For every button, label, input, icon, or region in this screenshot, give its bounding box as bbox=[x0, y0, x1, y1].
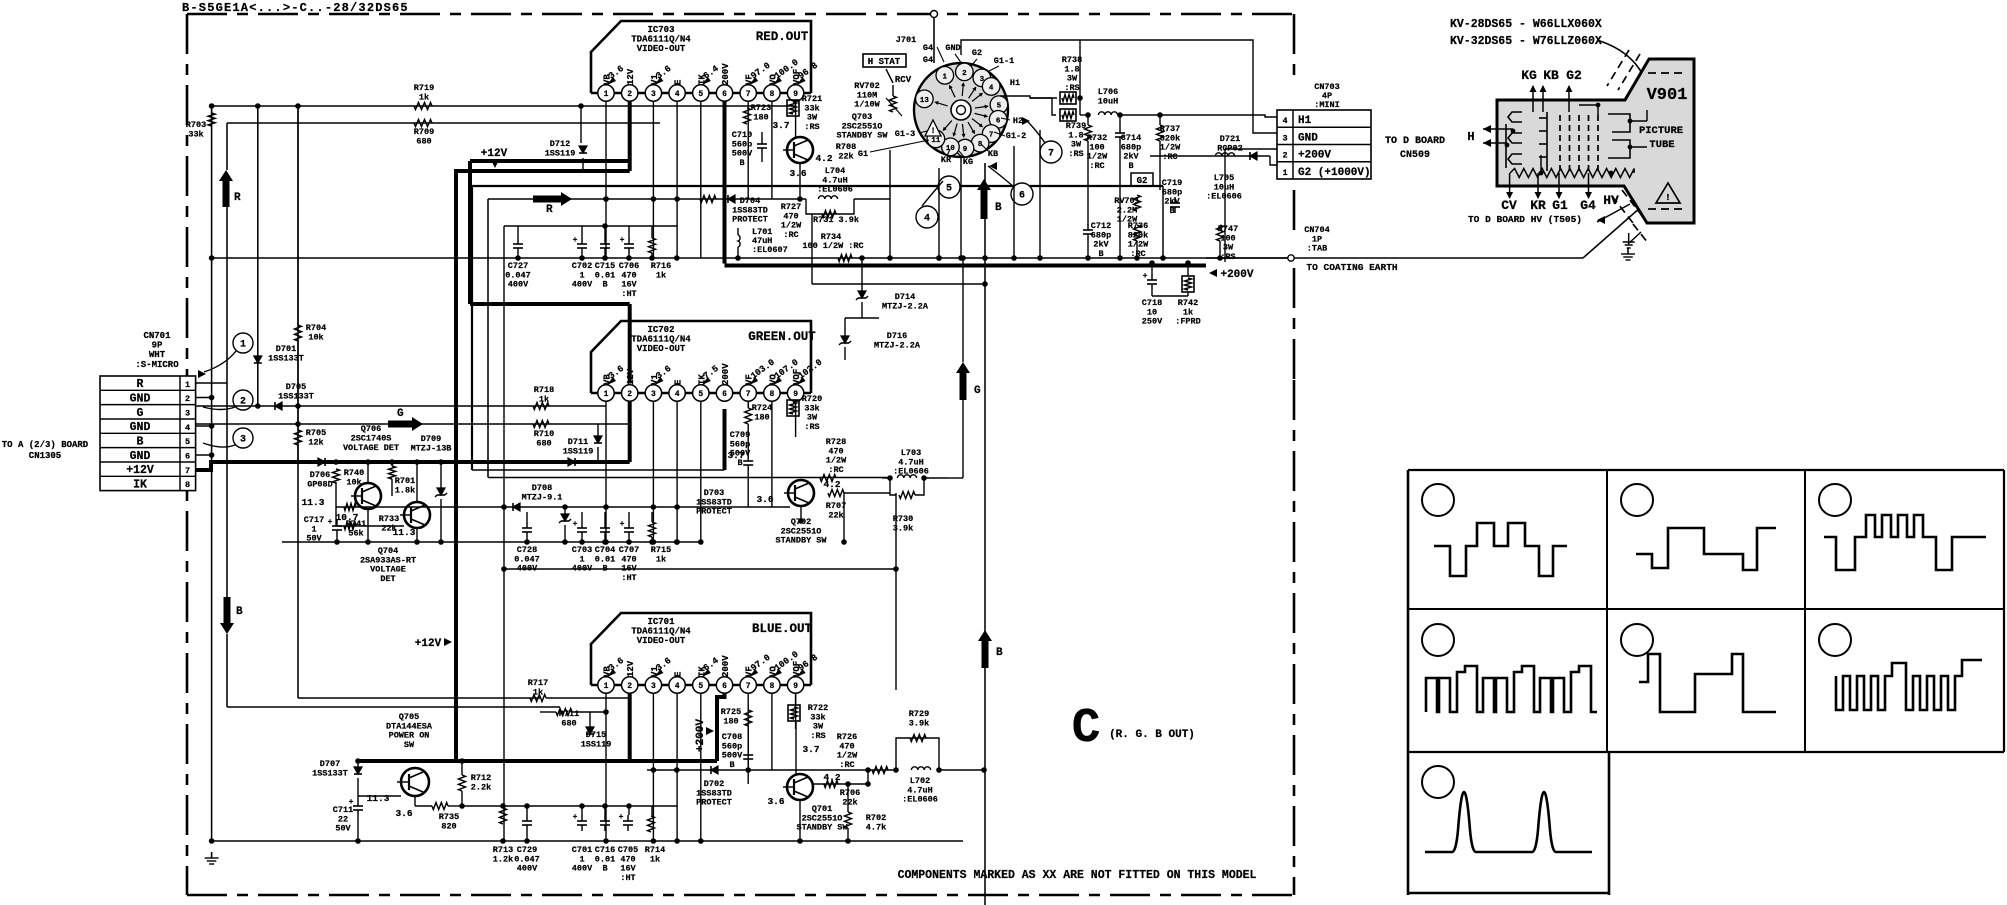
svg-text:MTZJ-9.1: MTZJ-9.1 bbox=[522, 492, 563, 502]
svg-text:PROTECT: PROTECT bbox=[696, 798, 732, 808]
svg-text::TAB: :TAB bbox=[1307, 244, 1327, 254]
svg-text:G1-2: G1-2 bbox=[1006, 131, 1026, 141]
svg-text:G2 (+1000V): G2 (+1000V) bbox=[1298, 167, 1371, 179]
svg-text:1.8k: 1.8k bbox=[395, 485, 415, 495]
svg-text:V901: V901 bbox=[1647, 86, 1688, 105]
svg-text:TDA6111Q/N4: TDA6111Q/N4 bbox=[631, 335, 691, 345]
svg-text:IK: IK bbox=[133, 479, 147, 492]
svg-text::RS: :RS bbox=[804, 422, 819, 432]
svg-text:3.6: 3.6 bbox=[767, 796, 784, 807]
svg-text:1SS133T: 1SS133T bbox=[278, 391, 314, 401]
svg-text:KB: KB bbox=[1543, 68, 1559, 83]
svg-text:DET: DET bbox=[380, 574, 395, 584]
svg-text:1k: 1k bbox=[650, 854, 660, 864]
svg-text:180: 180 bbox=[754, 412, 769, 422]
svg-text:400V: 400V bbox=[572, 280, 593, 290]
svg-text::S-MICRO: :S-MICRO bbox=[135, 360, 179, 370]
svg-text:G4: G4 bbox=[923, 43, 933, 53]
svg-text::RS: :RS bbox=[804, 122, 819, 132]
svg-text:6: 6 bbox=[996, 117, 1001, 125]
svg-text:CV: CV bbox=[1501, 198, 1517, 213]
svg-text:1SS119: 1SS119 bbox=[581, 739, 612, 749]
svg-text:3: 3 bbox=[651, 682, 656, 691]
svg-text:RGP02: RGP02 bbox=[1217, 143, 1243, 153]
svg-text:10k: 10k bbox=[308, 332, 323, 342]
svg-text:6: 6 bbox=[185, 451, 190, 461]
svg-text:3.7: 3.7 bbox=[772, 120, 789, 131]
svg-text:5: 5 bbox=[698, 90, 703, 99]
svg-text:+: + bbox=[620, 520, 625, 529]
svg-text:9: 9 bbox=[793, 390, 798, 399]
svg-text:GND: GND bbox=[945, 43, 960, 53]
svg-text:22k: 22k bbox=[381, 523, 396, 533]
svg-text:B: B bbox=[996, 647, 1003, 659]
svg-text::EL0607: :EL0607 bbox=[752, 245, 788, 255]
svg-text:COMPONENTS MARKED AS XX ARE NO: COMPONENTS MARKED AS XX ARE NOT FITTED O… bbox=[898, 869, 1257, 882]
svg-text:GP08D: GP08D bbox=[307, 479, 333, 489]
svg-text:+: + bbox=[573, 236, 578, 245]
svg-text:9: 9 bbox=[793, 90, 798, 99]
svg-text:22k: 22k bbox=[842, 797, 857, 807]
svg-text:1k: 1k bbox=[656, 270, 666, 280]
svg-text:6: 6 bbox=[1019, 191, 1025, 202]
svg-text:+: + bbox=[328, 518, 333, 527]
svg-text:B: B bbox=[236, 606, 243, 618]
svg-text:7: 7 bbox=[185, 466, 190, 476]
svg-text:G1: G1 bbox=[1552, 198, 1568, 213]
svg-text:+12V: +12V bbox=[126, 464, 154, 477]
svg-text:TDA6111Q/N4: TDA6111Q/N4 bbox=[631, 35, 691, 45]
svg-text:200V: 200V bbox=[721, 655, 731, 677]
svg-text:H1: H1 bbox=[1298, 115, 1312, 127]
svg-text:9: 9 bbox=[963, 146, 968, 154]
svg-text:5: 5 bbox=[185, 437, 190, 447]
svg-text:5: 5 bbox=[946, 184, 952, 195]
svg-text:22k: 22k bbox=[828, 510, 843, 520]
svg-text::FPRD: :FPRD bbox=[1175, 317, 1201, 327]
svg-text::EL0606: :EL0606 bbox=[817, 185, 853, 195]
svg-text:H2: H2 bbox=[1013, 116, 1023, 126]
svg-text:B: B bbox=[737, 458, 742, 468]
svg-text:IC703: IC703 bbox=[647, 25, 674, 35]
svg-text:B: B bbox=[739, 158, 744, 168]
svg-text:11.3: 11.3 bbox=[302, 497, 325, 508]
svg-text:TO D BOARD HV (T505): TO D BOARD HV (T505) bbox=[1468, 214, 1582, 225]
svg-text:12V: 12V bbox=[626, 660, 636, 677]
svg-text:250V: 250V bbox=[1142, 317, 1163, 327]
svg-text::MINI: :MINI bbox=[1314, 100, 1340, 110]
svg-text:4.2: 4.2 bbox=[815, 153, 832, 164]
svg-text:VIDEO-OUT: VIDEO-OUT bbox=[637, 636, 686, 646]
svg-text:33k: 33k bbox=[188, 129, 203, 139]
svg-text:B: B bbox=[995, 202, 1002, 214]
svg-text:200V: 200V bbox=[721, 363, 731, 385]
svg-text:HV: HV bbox=[1603, 193, 1619, 208]
svg-text:+: + bbox=[573, 813, 578, 822]
svg-text:50V: 50V bbox=[306, 534, 322, 544]
svg-text:CN1305: CN1305 bbox=[29, 451, 61, 461]
svg-text:6: 6 bbox=[722, 390, 727, 399]
svg-text:GND: GND bbox=[130, 421, 151, 434]
svg-text:H STAT: H STAT bbox=[868, 57, 901, 67]
svg-text:+: + bbox=[573, 520, 578, 529]
svg-text:1k: 1k bbox=[539, 394, 549, 404]
svg-text:4: 4 bbox=[989, 84, 994, 92]
svg-text:1: 1 bbox=[185, 380, 190, 390]
svg-text:11.3: 11.3 bbox=[367, 793, 390, 804]
svg-text:PROTECT: PROTECT bbox=[696, 507, 732, 517]
svg-text:G1-3: G1-3 bbox=[895, 129, 915, 139]
svg-text:1/10W: 1/10W bbox=[854, 100, 880, 110]
svg-text:GND: GND bbox=[130, 450, 151, 463]
svg-text:1k: 1k bbox=[656, 554, 666, 564]
svg-text:G2: G2 bbox=[972, 48, 982, 58]
svg-text:400V: 400V bbox=[572, 864, 593, 874]
svg-text:WHT: WHT bbox=[149, 350, 166, 360]
svg-text:7: 7 bbox=[1048, 149, 1054, 160]
svg-text:+200V: +200V bbox=[695, 719, 707, 752]
svg-text:R: R bbox=[234, 192, 241, 204]
svg-text:KG: KG bbox=[1521, 68, 1537, 83]
svg-text:1k: 1k bbox=[419, 92, 429, 102]
svg-text:+: + bbox=[620, 236, 625, 245]
svg-text:8: 8 bbox=[769, 390, 774, 399]
svg-text:56k: 56k bbox=[348, 528, 363, 538]
svg-text::RS: :RS bbox=[1220, 252, 1235, 262]
svg-text:TO A (2/3) BOARD: TO A (2/3) BOARD bbox=[2, 440, 89, 450]
svg-text:+12V: +12V bbox=[481, 148, 508, 160]
svg-text:680: 680 bbox=[536, 438, 551, 448]
svg-text:(R. G. B OUT): (R. G. B OUT) bbox=[1109, 729, 1195, 741]
svg-text:12V: 12V bbox=[626, 68, 636, 85]
svg-text:B: B bbox=[602, 280, 607, 290]
svg-text:2: 2 bbox=[185, 394, 190, 404]
svg-text:PICTURE: PICTURE bbox=[1639, 125, 1683, 137]
svg-text:PROTECT: PROTECT bbox=[732, 215, 768, 225]
svg-text:B: B bbox=[137, 436, 144, 449]
svg-text:TUBE: TUBE bbox=[1649, 139, 1674, 151]
svg-text:2.2k: 2.2k bbox=[471, 782, 491, 792]
svg-text:G4: G4 bbox=[1580, 198, 1596, 213]
svg-text:VOLTAGE DET: VOLTAGE DET bbox=[343, 443, 399, 453]
svg-text:!: ! bbox=[931, 127, 936, 136]
svg-text:1: 1 bbox=[943, 73, 948, 81]
svg-text:8: 8 bbox=[769, 682, 774, 691]
svg-text:3: 3 bbox=[651, 90, 656, 99]
svg-text:6: 6 bbox=[722, 90, 727, 99]
svg-text:KV-28DS65 - W66LLX060X: KV-28DS65 - W66LLX060X bbox=[1450, 18, 1602, 31]
svg-text:7: 7 bbox=[989, 132, 994, 140]
svg-text:KV-32DS65 - W76LLZ060X: KV-32DS65 - W76LLZ060X bbox=[1450, 35, 1602, 48]
svg-text:GREEN.OUT: GREEN.OUT bbox=[748, 330, 816, 344]
svg-text:2SC1740S: 2SC1740S bbox=[351, 433, 392, 443]
svg-text:H: H bbox=[1467, 130, 1474, 144]
svg-text:2: 2 bbox=[962, 70, 967, 78]
svg-text:J701: J701 bbox=[896, 35, 916, 45]
svg-text:G: G bbox=[137, 407, 144, 420]
svg-text:R731 3.9k: R731 3.9k bbox=[813, 215, 859, 225]
svg-text:B: B bbox=[1098, 249, 1103, 259]
svg-text:G4: G4 bbox=[923, 55, 933, 65]
svg-text:680: 680 bbox=[416, 136, 431, 146]
svg-text:KB: KB bbox=[988, 149, 998, 159]
svg-text:KR: KR bbox=[941, 155, 952, 165]
svg-text:7: 7 bbox=[746, 682, 751, 691]
svg-text:RED.OUT: RED.OUT bbox=[756, 30, 809, 44]
svg-text:!: ! bbox=[1665, 193, 1670, 203]
svg-text:820: 820 bbox=[441, 821, 456, 831]
svg-text:TO COATING EARTH: TO COATING EARTH bbox=[1306, 262, 1398, 273]
svg-text:E: E bbox=[674, 79, 684, 85]
svg-text:VIDEO-OUT: VIDEO-OUT bbox=[637, 44, 686, 54]
svg-text:TDA6111Q/N4: TDA6111Q/N4 bbox=[631, 627, 691, 637]
svg-text::RS: :RS bbox=[1068, 149, 1083, 159]
svg-text:100 1/2W :RC: 100 1/2W :RC bbox=[802, 241, 863, 251]
svg-text:1SS133T: 1SS133T bbox=[268, 353, 304, 363]
svg-text:SW: SW bbox=[404, 740, 415, 750]
svg-text:680: 680 bbox=[561, 718, 576, 728]
svg-text::RC: :RC bbox=[828, 465, 843, 475]
svg-text:B-S5GE1A<...>-C..-28/32DS65: B-S5GE1A<...>-C..-28/32DS65 bbox=[182, 1, 409, 15]
svg-text:CN509: CN509 bbox=[1400, 150, 1430, 161]
svg-text:+: + bbox=[1143, 272, 1148, 281]
svg-text::EL0606: :EL0606 bbox=[902, 795, 938, 805]
svg-text:13: 13 bbox=[920, 97, 930, 105]
svg-text:11: 11 bbox=[931, 137, 941, 145]
svg-text:G: G bbox=[397, 408, 404, 420]
svg-text::HT: :HT bbox=[621, 289, 636, 299]
svg-text:400V: 400V bbox=[517, 864, 538, 874]
svg-text:KG: KG bbox=[963, 157, 973, 167]
svg-text:3.6: 3.6 bbox=[395, 808, 412, 819]
svg-text:400V: 400V bbox=[508, 280, 529, 290]
svg-text:+12V: +12V bbox=[415, 638, 442, 650]
svg-text::EL0606: :EL0606 bbox=[893, 467, 929, 477]
svg-text::RS: :RS bbox=[810, 731, 825, 741]
svg-text:10uH: 10uH bbox=[1098, 96, 1118, 106]
svg-text:MTZJ-2.2A: MTZJ-2.2A bbox=[882, 301, 929, 311]
svg-text:MTZJ-2.2A: MTZJ-2.2A bbox=[874, 340, 921, 350]
svg-text:KR: KR bbox=[1530, 198, 1546, 213]
svg-text:2: 2 bbox=[1282, 151, 1287, 161]
svg-text:STANDBY SW: STANDBY SW bbox=[796, 823, 848, 833]
svg-text:4: 4 bbox=[1282, 116, 1287, 126]
svg-text:G2: G2 bbox=[1137, 176, 1148, 186]
svg-text:200V: 200V bbox=[721, 63, 731, 85]
svg-text:2: 2 bbox=[627, 90, 632, 99]
svg-text:E: E bbox=[674, 671, 684, 677]
svg-text:3: 3 bbox=[240, 435, 246, 446]
svg-text:1k: 1k bbox=[533, 687, 543, 697]
svg-text:2: 2 bbox=[627, 390, 632, 399]
svg-text:4.7k: 4.7k bbox=[866, 822, 886, 832]
svg-text::HT: :HT bbox=[620, 873, 635, 883]
svg-text:1SS119: 1SS119 bbox=[563, 446, 594, 456]
svg-text:+: + bbox=[619, 813, 624, 822]
svg-text:2: 2 bbox=[627, 682, 632, 691]
svg-text:1: 1 bbox=[240, 340, 246, 351]
svg-text:12k: 12k bbox=[308, 437, 323, 447]
svg-text:C: C bbox=[1072, 702, 1101, 756]
svg-text:3: 3 bbox=[1282, 133, 1287, 143]
svg-text:9P: 9P bbox=[152, 341, 163, 351]
svg-text:4: 4 bbox=[675, 90, 680, 99]
svg-text:H1: H1 bbox=[1010, 78, 1020, 88]
svg-text:B: B bbox=[1128, 161, 1133, 171]
svg-text::RS: :RS bbox=[1064, 83, 1079, 93]
svg-text:5: 5 bbox=[698, 682, 703, 691]
svg-text::EL0606: :EL0606 bbox=[1206, 192, 1242, 202]
svg-text::RC: :RC bbox=[783, 230, 798, 240]
svg-text:VIDEO-OUT: VIDEO-OUT bbox=[637, 344, 686, 354]
svg-text:3.6: 3.6 bbox=[756, 494, 773, 505]
svg-text:GND: GND bbox=[1298, 132, 1318, 144]
svg-text:1: 1 bbox=[604, 90, 609, 99]
svg-text:4: 4 bbox=[675, 390, 680, 399]
svg-text:180: 180 bbox=[723, 716, 738, 726]
svg-text:R: R bbox=[137, 378, 144, 391]
svg-text:MTZJ-13B: MTZJ-13B bbox=[411, 443, 452, 453]
svg-text:7: 7 bbox=[746, 90, 751, 99]
svg-text:CN701: CN701 bbox=[143, 331, 171, 341]
svg-text:3.7: 3.7 bbox=[802, 744, 819, 755]
svg-text:6: 6 bbox=[722, 682, 727, 691]
svg-text:STANDBY SW: STANDBY SW bbox=[836, 131, 888, 141]
svg-text:G2: G2 bbox=[1566, 68, 1582, 83]
svg-text:TO D BOARD: TO D BOARD bbox=[1385, 136, 1445, 147]
svg-text:G1-1: G1-1 bbox=[994, 56, 1014, 66]
svg-text:1.2k: 1.2k bbox=[493, 854, 513, 864]
svg-text:22k: 22k bbox=[838, 151, 853, 161]
svg-text:3.6: 3.6 bbox=[789, 168, 806, 179]
svg-text:4: 4 bbox=[924, 214, 930, 225]
svg-text:3: 3 bbox=[185, 408, 190, 418]
svg-text:3.9k: 3.9k bbox=[909, 718, 929, 728]
svg-text:50V: 50V bbox=[335, 824, 351, 834]
svg-text::RC: :RC bbox=[1089, 161, 1104, 171]
svg-text:1SS133T: 1SS133T bbox=[312, 768, 348, 778]
svg-text:GND: GND bbox=[130, 393, 151, 406]
svg-text:5: 5 bbox=[698, 390, 703, 399]
svg-text:1: 1 bbox=[604, 682, 609, 691]
svg-text:IC701: IC701 bbox=[647, 617, 675, 627]
svg-text:4: 4 bbox=[185, 423, 190, 433]
svg-text:4: 4 bbox=[675, 682, 680, 691]
svg-text:+200V: +200V bbox=[1220, 269, 1253, 281]
svg-text:7: 7 bbox=[746, 390, 751, 399]
svg-text:9: 9 bbox=[793, 682, 798, 691]
svg-text:E: E bbox=[674, 379, 684, 385]
svg-text:1: 1 bbox=[604, 390, 609, 399]
svg-text:5: 5 bbox=[997, 103, 1002, 111]
svg-text:STANDBY SW: STANDBY SW bbox=[775, 536, 827, 546]
svg-text:8: 8 bbox=[185, 480, 190, 490]
svg-text:1: 1 bbox=[1282, 168, 1287, 178]
svg-text:G: G bbox=[974, 385, 981, 397]
svg-text:R: R bbox=[546, 204, 553, 216]
svg-text:RCV: RCV bbox=[895, 75, 912, 85]
svg-text:180: 180 bbox=[753, 112, 768, 122]
svg-text:B: B bbox=[729, 760, 734, 770]
svg-text:BLUE.OUT: BLUE.OUT bbox=[752, 622, 813, 636]
svg-text::RC: :RC bbox=[1162, 152, 1177, 162]
svg-text:8: 8 bbox=[769, 90, 774, 99]
svg-text:10: 10 bbox=[946, 145, 956, 153]
svg-text:IC702: IC702 bbox=[647, 325, 674, 335]
svg-text::RC: :RC bbox=[839, 760, 854, 770]
svg-text:3: 3 bbox=[651, 390, 656, 399]
svg-text:B: B bbox=[602, 864, 607, 874]
svg-text:+200V: +200V bbox=[1298, 150, 1331, 162]
svg-text:1SS119: 1SS119 bbox=[545, 148, 576, 158]
svg-text::HT: :HT bbox=[621, 573, 636, 583]
svg-text:B: B bbox=[1169, 206, 1174, 216]
svg-text:G1: G1 bbox=[858, 149, 868, 159]
